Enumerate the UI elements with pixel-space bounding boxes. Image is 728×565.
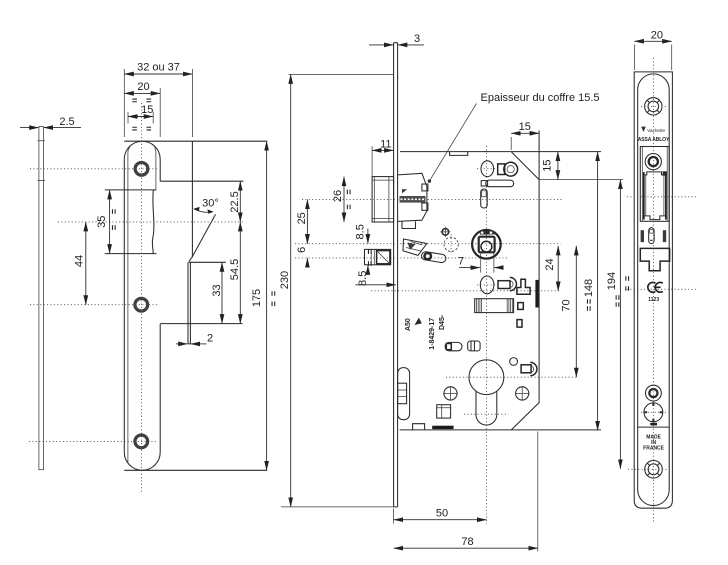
svg-text:78: 78 — [461, 536, 473, 548]
dim 15 vertical — [539, 152, 623, 180]
symmetry marks left of plate — [626, 276, 629, 291]
clip lower — [498, 277, 516, 290]
cylinder screw — [646, 385, 662, 401]
dim 2.5 — [20, 116, 81, 128]
dim 33 — [211, 262, 223, 323]
dim 54.5 — [229, 222, 241, 324]
dim 175 — [251, 141, 275, 470]
follower hub — [472, 230, 501, 259]
svg-text:11: 11 — [380, 138, 391, 150]
pill slot — [481, 180, 514, 187]
vachette logo — [641, 127, 665, 133]
svg-text:Vachette: Vachette — [647, 128, 665, 133]
bottom step — [413, 424, 425, 430]
svg-text:175: 175 — [251, 289, 263, 307]
dim 15 horizontal — [511, 121, 539, 150]
hole middle — [134, 297, 149, 312]
small u fixtures — [517, 303, 523, 328]
axis centerlines — [295, 146, 579, 524]
svg-text:Epaisseur du coffre 15.5: Epaisseur du coffre 15.5 — [481, 92, 600, 104]
svg-text:35: 35 — [96, 216, 108, 228]
small cross screw — [440, 227, 450, 237]
dim 70 — [560, 246, 576, 377]
centerlines — [29, 103, 244, 493]
svg-text:44: 44 — [73, 255, 85, 267]
angle 30 deg — [193, 198, 219, 214]
vertical slot — [481, 189, 488, 208]
tongue 2mm — [188, 262, 190, 344]
latch spring — [400, 189, 426, 202]
bottom tangent line — [124, 469, 267, 471]
follower box left of plate — [365, 249, 391, 266]
deadbolt cutout — [640, 248, 669, 270]
svg-text:2.5: 2.5 — [59, 116, 74, 128]
svg-text:148: 148 — [583, 279, 595, 297]
svg-text:20: 20 — [137, 81, 149, 93]
dim 20 — [634, 30, 671, 71]
dim 44 — [73, 222, 86, 305]
svg-text:70: 70 — [560, 299, 572, 311]
svg-text:3: 3 — [414, 33, 420, 45]
dim 35 — [96, 190, 115, 254]
svg-text:22.5: 22.5 — [229, 191, 241, 212]
dim 25 — [296, 200, 308, 244]
top tangent line — [124, 140, 267, 142]
latch recess box — [640, 147, 669, 222]
case outline — [400, 131, 601, 430]
top screw — [641, 98, 666, 115]
svg-text:D45-: D45- — [439, 314, 446, 330]
clip top — [498, 162, 518, 176]
faceplate front outer outline — [634, 72, 672, 508]
bottom screw — [628, 461, 669, 479]
dim 8.5 lower — [355, 265, 395, 286]
svg-text:230: 230 — [279, 271, 291, 289]
dim 20 — [124, 81, 160, 137]
lip fold — [160, 141, 243, 323]
svg-text:24: 24 — [544, 258, 556, 270]
dim 50 — [394, 508, 487, 524]
pill fixtures center — [445, 341, 480, 351]
label epaisseur du coffre — [428, 92, 600, 183]
svg-text:6: 6 — [296, 247, 308, 253]
screw slots row — [641, 228, 667, 244]
svg-text:194: 194 — [606, 272, 618, 290]
dim 3 — [369, 33, 424, 45]
oval hole lower — [480, 276, 494, 294]
spring arm pill — [421, 251, 446, 263]
svg-text:32 ou 37: 32 ou 37 — [137, 61, 180, 73]
dim 15 — [128, 104, 153, 130]
svg-text:7: 7 — [458, 256, 464, 268]
right view centerlines — [627, 58, 697, 523]
latch head box — [372, 177, 394, 222]
dim 22.5 — [229, 181, 241, 222]
adjusting ring screw — [645, 154, 661, 170]
inner cutout 35 box — [105, 112, 157, 254]
svg-text:8.5: 8.5 — [354, 224, 366, 239]
svg-text:A50: A50 — [405, 318, 412, 331]
dim 6 — [296, 236, 308, 265]
latch bolt behind plate — [398, 173, 428, 221]
dim 194 — [606, 180, 620, 469]
square window — [437, 405, 451, 418]
black bar right edge — [535, 280, 538, 308]
dim 7 — [458, 253, 502, 273]
dim 8.5 upper — [354, 224, 368, 243]
hole bottom — [134, 434, 149, 449]
svg-text:33: 33 — [211, 284, 223, 296]
dim 32 ou 37 — [124, 61, 192, 137]
CE mark — [648, 282, 663, 303]
svg-text:FRANCE: FRANCE — [643, 446, 664, 452]
clip mid right — [510, 358, 537, 376]
svg-text:2: 2 — [207, 333, 213, 345]
svg-text:50: 50 — [436, 508, 448, 520]
strike plate outline — [124, 141, 160, 470]
svg-text:54.5: 54.5 — [229, 259, 241, 280]
oval hole top — [481, 161, 494, 177]
small bar — [650, 423, 657, 426]
faceplate inner contour — [638, 74, 670, 506]
made in france — [643, 435, 664, 452]
dim 2 — [176, 333, 213, 345]
dim 24 — [544, 246, 558, 291]
latch bolt front — [644, 171, 667, 219]
fixing hole left — [443, 386, 458, 401]
svg-text:15: 15 — [141, 104, 153, 116]
bolt tail — [402, 221, 427, 255]
inner recess end line — [638, 426, 670, 428]
dim 78 — [394, 432, 538, 552]
svg-text:1-8429-17: 1-8429-17 — [429, 318, 436, 350]
hole top — [134, 161, 149, 176]
svg-text:25: 25 — [296, 212, 308, 224]
svg-text:20: 20 — [651, 30, 663, 42]
T fixture — [517, 279, 530, 294]
phantom hole dashed — [444, 235, 458, 255]
euro cylinder — [469, 360, 504, 425]
cylinder clamp at faceplate — [398, 368, 410, 420]
dim 148 — [583, 152, 597, 431]
black bar bottom — [432, 426, 453, 429]
strike plate side view strip — [38, 127, 46, 470]
svg-text:8.5: 8.5 — [357, 271, 369, 286]
key box — [475, 299, 514, 313]
svg-text:15: 15 — [519, 121, 531, 133]
svg-text:ASSA ABLOY: ASSA ABLOY — [638, 137, 670, 143]
faceplate side strip — [394, 43, 398, 507]
dim 230 — [279, 74, 394, 507]
dim 26 — [332, 177, 350, 222]
svg-text:30°: 30° — [202, 198, 219, 210]
dim 11 — [372, 138, 394, 176]
fixing hole right — [515, 386, 530, 401]
svg-text:15: 15 — [542, 159, 554, 171]
rosette — [641, 403, 666, 422]
svg-text:26: 26 — [332, 190, 344, 202]
stamp arrow — [415, 318, 422, 325]
